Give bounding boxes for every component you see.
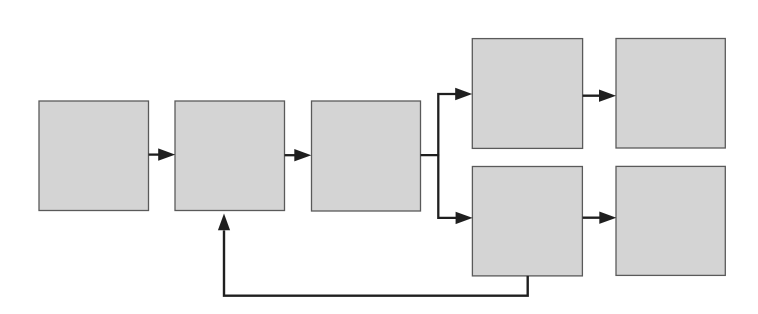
wire arrow block6 to block7 — [583, 217, 600, 219]
wire block3 to branch point — [421, 154, 440, 156]
arrowhead into block3 — [294, 149, 311, 161]
block 7 (bottom branch, second) — [616, 166, 725, 275]
block 1 (left row, first) — [39, 101, 149, 211]
block 6 (bottom branch, first) — [472, 167, 582, 276]
branch wire (vertical with top and bottom arms) — [438, 94, 457, 218]
arrowhead into block2 — [158, 148, 175, 160]
arrowhead into block5 — [599, 90, 616, 102]
arrowhead into block6 — [456, 212, 473, 224]
arrowhead into block7 — [599, 212, 616, 224]
wire arrow block4 to block5 — [583, 95, 600, 97]
wire arrow block2 to block3 — [285, 154, 296, 156]
feedback wire from block6 bottom to block2 bottom — [224, 231, 528, 296]
block 2 (left row, second) — [175, 101, 285, 211]
block 5 (top branch, second) — [616, 39, 725, 149]
arrowhead into block4 — [455, 88, 472, 100]
block 4 (top branch, first) — [472, 39, 582, 149]
block 3 (left row, third) — [312, 101, 421, 211]
arrowhead up into block2 — [218, 214, 230, 231]
wire arrow block1 to block2 — [149, 153, 160, 155]
